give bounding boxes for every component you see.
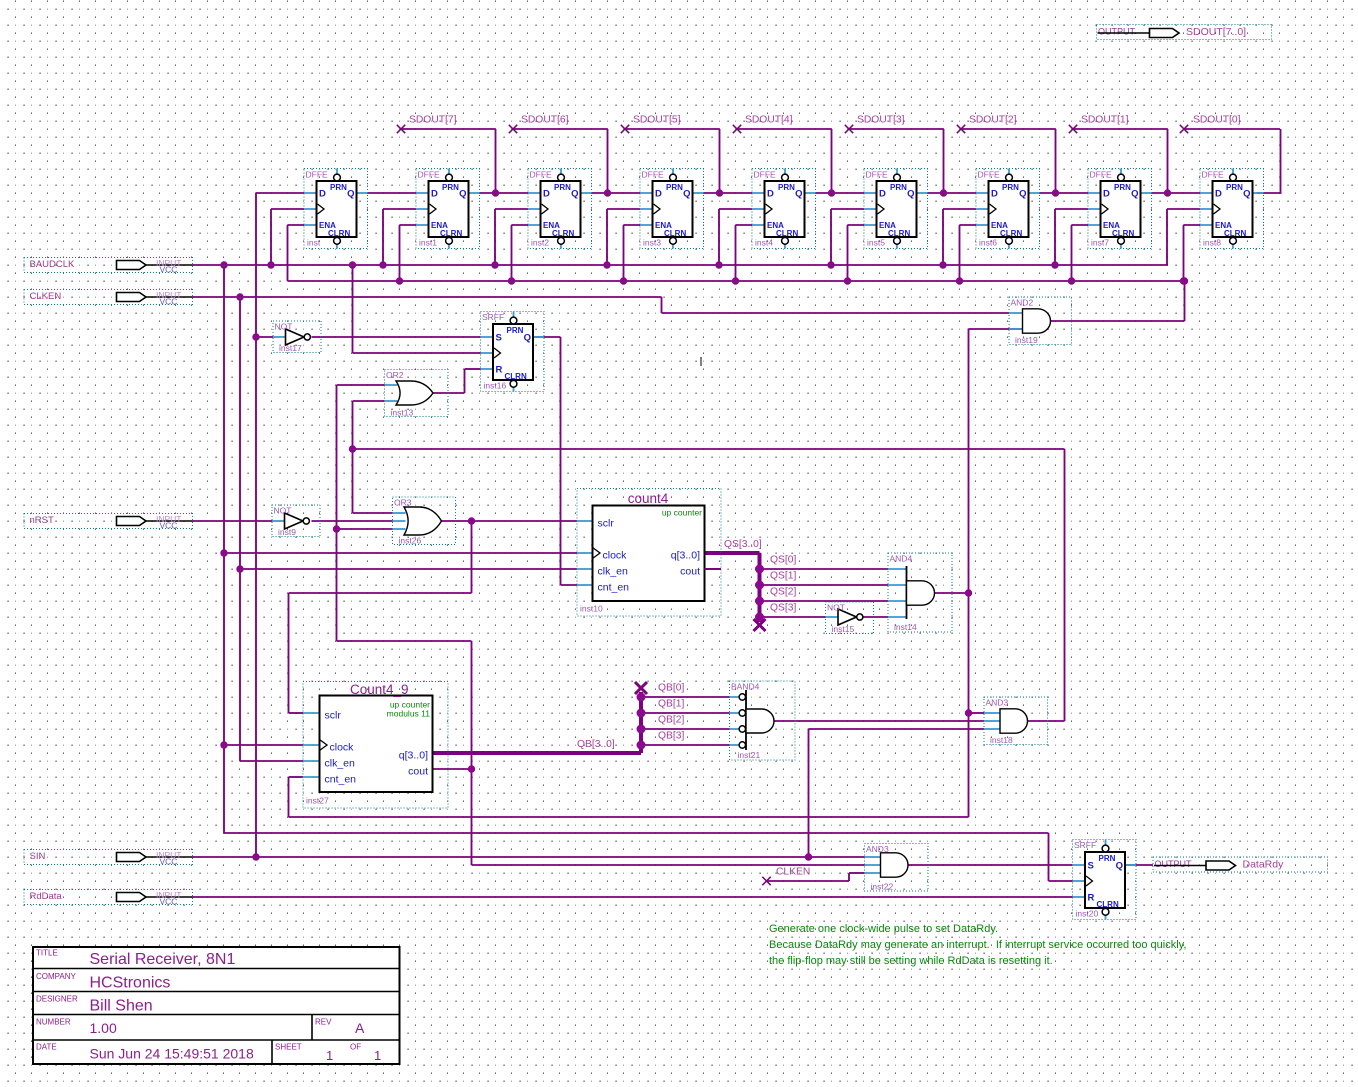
svg-text:SDOUT[3]: SDOUT[3]: [857, 115, 905, 126]
junction QB bus tap at y=744: [637, 741, 646, 750]
svg-text:Q: Q: [1131, 189, 1138, 200]
svg-text:DFFE: DFFE: [754, 170, 777, 180]
wire Q of inst6 to D of inst7: [1040, 192, 1089, 194]
svg-text:CLRN: CLRN: [776, 229, 798, 238]
wire SIN row to AND3 inst22 input 1: [193, 856, 865, 858]
inverter inst17 (NOT): [273, 321, 321, 353]
svg-text:inst18: inst18: [990, 735, 1013, 745]
svg-text:QB[0]: QB[0]: [658, 683, 684, 694]
wire OR3 inst26 output to count4 inst10 sclr: [442, 520, 578, 522]
svg-text:inst9: inst9: [278, 527, 296, 537]
svg-text:inst16: inst16: [484, 381, 507, 391]
svg-text:PRN: PRN: [1114, 183, 1131, 192]
svg-text:q[3..0]: q[3..0]: [671, 550, 700, 562]
svg-text:DATE: DATE: [36, 1043, 57, 1052]
junction QS bus tap at y=568: [755, 565, 764, 574]
net label QS[1]: [770, 571, 796, 582]
junction AND4 output / column: [965, 589, 972, 596]
input pin SIN (INPUT VCC): [24, 850, 193, 867]
svg-text:SHEET: SHEET: [275, 1043, 302, 1052]
svg-text:VCC: VCC: [160, 297, 178, 307]
svg-text:Q: Q: [683, 189, 690, 200]
junction SDOUT[6] tap: [604, 189, 611, 196]
junction bit-done / OR2 input 2: [349, 445, 356, 452]
svg-text:Sun Jun 24 15:49:51 2018: Sun Jun 24 15:49:51 2018: [90, 1046, 254, 1062]
wire shift-enable to ENA of DFFE #8: [1184, 225, 1201, 281]
junction BAUDCLK / clock DFFE #4: [715, 261, 722, 268]
wire RdData input to SRFF inst20 R input: [193, 896, 1073, 898]
wire CLKEN column down to counter clk_en inputs: [240, 297, 303, 761]
AND gate inst18 (AND3): [984, 697, 1048, 745]
wire net QS[0] to AND4 inst14: [760, 568, 889, 570]
junction AND4 net / AND3 inst18 input 1: [965, 709, 972, 716]
svg-text:D: D: [879, 189, 886, 200]
svg-text:Q: Q: [907, 189, 914, 200]
unconnected end marker CLKEN stub: [762, 877, 770, 885]
svg-text:PRN: PRN: [442, 183, 459, 192]
svg-text:Q: Q: [459, 189, 466, 200]
net label SDOUT[4]: [745, 115, 793, 126]
svg-text:DFFE: DFFE: [866, 170, 889, 180]
svg-text:Bill Shen: Bill Shen: [90, 998, 153, 1015]
svg-text:Q: Q: [1116, 861, 1123, 872]
svg-text:sclr: sclr: [325, 710, 342, 722]
wire net SDOUT[5] label stub: [624, 129, 720, 193]
input pin nRST (INPUT VCC): [24, 514, 193, 531]
wire net QB[1] to BAND4 inst21: [641, 712, 730, 714]
svg-text:QS[0]: QS[0]: [770, 555, 796, 566]
svg-text:S: S: [1088, 861, 1094, 872]
junction QS bus tap at y=616: [755, 613, 764, 622]
junction BAUDCLK / clock DFFE #7: [1051, 261, 1058, 268]
svg-text:inst27: inst27: [306, 796, 329, 806]
junction BAUDCLK / clock DFFE #6: [939, 261, 946, 268]
unconnected end marker net SDOUT[3]: [845, 125, 853, 133]
wire net QS[2] to AND4 inst14: [760, 600, 889, 602]
svg-text:inst14: inst14: [894, 622, 917, 632]
svg-text:inst13: inst13: [391, 408, 414, 418]
svg-text:PRN: PRN: [330, 183, 347, 192]
wire BAND4 inst21 output to AND3 inst18 input 2: [775, 720, 985, 722]
svg-text:NOT: NOT: [275, 322, 293, 332]
net label QB[2]: [658, 715, 684, 726]
wire shift-enable to ENA of DFFE #0: [288, 225, 305, 281]
svg-text:SRFF: SRFF: [482, 312, 504, 322]
svg-text:HCStronics: HCStronics: [90, 975, 171, 992]
unconnected end marker net SDOUT[5]: [621, 125, 629, 133]
title block: [33, 947, 400, 1064]
D flip-flop with enable inst6 (DFFE): [976, 169, 1040, 249]
wire Q of inst7 to D of inst8: [1152, 192, 1201, 194]
junction SIN row / AND3 inst18 input 3 tap: [805, 853, 812, 860]
svg-text:CLRN: CLRN: [1112, 229, 1134, 238]
svg-text:inst26: inst26: [399, 536, 422, 546]
net label QB[3]: [658, 731, 684, 742]
svg-text:clk_en: clk_en: [325, 758, 356, 770]
svg-text:CLKEN: CLKEN: [30, 291, 62, 302]
svg-text:modulus 11: modulus 11: [387, 709, 431, 719]
D flip-flop with enable inst3 (DFFE): [640, 169, 704, 249]
AND gate inst14 (AND4): [888, 553, 952, 632]
wire CLKEN to count4 inst10 clk_en: [240, 568, 577, 570]
SR flip-flop inst16 (SRFF): [481, 312, 545, 392]
wire net QS[3] to NOT inst15: [760, 616, 826, 618]
wire net QB[3] to BAND4 inst21: [641, 744, 730, 746]
wire NOT inst9 output to OR3 inst26 input 2: [312, 520, 393, 522]
svg-text:clk_en: clk_en: [598, 566, 629, 578]
junction SDOUT[2] tap: [1052, 189, 1059, 196]
wire BAUDCLK to clock of DFFE #6: [943, 209, 976, 265]
svg-text:SRFF: SRFF: [1074, 840, 1096, 850]
wire BAUDCLK to Count4_9 inst27 clock: [224, 744, 303, 746]
svg-text:Q: Q: [795, 189, 802, 200]
bus QS[3..0] from count4 inst10 q output: [705, 553, 760, 622]
wire net QB[2] to BAND4 inst21: [641, 728, 730, 730]
svg-text:DESIGNER: DESIGNER: [36, 995, 78, 1004]
svg-text:D: D: [767, 189, 774, 200]
junction CLKEN / count4 clk_en: [236, 565, 243, 572]
wire bit-done net horizontal to AND3 inst18 output: [353, 449, 1065, 721]
svg-text:CLRN: CLRN: [1000, 229, 1022, 238]
svg-text:SDOUT[1]: SDOUT[1]: [1081, 115, 1129, 126]
wire SRFF inst20 Q to DataRdy output pin: [1126, 864, 1153, 866]
wire OR3 output to Count4_9 inst27 sclr: [289, 521, 472, 713]
svg-text:D: D: [1215, 189, 1222, 200]
wire BAUDCLK to clock of DFFE #4: [719, 209, 752, 265]
bus label QS[3..0]: [724, 539, 762, 550]
svg-text:D: D: [991, 189, 998, 200]
svg-text:Serial Receiver, 8N1: Serial Receiver, 8N1: [90, 951, 236, 968]
svg-text:D: D: [319, 189, 326, 200]
net label SDOUT[2]: [969, 115, 1017, 126]
junction shift-enable / ENA DFFE #2: [508, 277, 515, 284]
svg-text:cnt_en: cnt_en: [598, 582, 630, 594]
junction BAUDCLK / left column: [220, 261, 227, 268]
wire CLKEN row to AND2 inst19 input: [193, 297, 1010, 313]
svg-text:OF: OF: [350, 1043, 361, 1052]
wire SIN tap to NOT inst17 input: [256, 336, 273, 338]
wire BAUDCLK to clock of DFFE #5: [831, 209, 864, 265]
junction QB bus tap at y=712: [637, 709, 646, 718]
comment text: [769, 923, 1186, 967]
svg-text:BAUDCLK: BAUDCLK: [30, 259, 76, 270]
net label QB[1]: [658, 699, 684, 710]
unconnected end marker net SDOUT[0]: [1180, 125, 1188, 133]
D flip-flop with enable inst7 (DFFE): [1088, 169, 1152, 249]
wire NOT inst15 output to AND4 inst14 input 4: [863, 616, 889, 618]
junction BAUDCLK / SRFF inst16 clock tap: [349, 261, 356, 268]
junction OR3 output / sclr nets: [468, 517, 475, 524]
svg-text:1: 1: [374, 1048, 381, 1063]
svg-text:OR3: OR3: [394, 498, 412, 508]
SR flip-flop inst20 (SRFF): [1073, 840, 1137, 920]
wire OR2 inst13 output to SRFF inst16 R input: [433, 369, 481, 393]
svg-text:Count4_9: Count4_9: [350, 682, 409, 697]
svg-text:sclr: sclr: [598, 518, 615, 530]
svg-text:CLRN: CLRN: [888, 229, 910, 238]
wire net QS[1] to AND4 inst14: [760, 584, 889, 586]
D flip-flop with enable inst2 (DFFE): [528, 169, 592, 249]
input pin CLKEN (INPUT VCC): [24, 290, 193, 307]
junction SDOUT[1] tap: [1164, 189, 1171, 196]
junction SIN column / SIN row: [252, 853, 259, 860]
counter inst27 (Count4_9 up counter modulus 11): [303, 682, 448, 809]
wire frame-done net column (cout of Count4_9): [337, 385, 865, 865]
wire frame-done tap to OR3 inst26 input 3: [337, 528, 393, 530]
svg-text:VCC: VCC: [160, 897, 178, 907]
net label SDOUT[0]: [1193, 115, 1241, 126]
svg-text:R: R: [1088, 893, 1095, 904]
wire net SDOUT[1] label stub: [1072, 129, 1168, 193]
svg-text:inst5: inst5: [867, 238, 885, 248]
wire Q of inst3 to D of inst4: [704, 192, 753, 194]
svg-text:DataRdy: DataRdy: [1243, 859, 1285, 871]
svg-text:VCC: VCC: [160, 521, 178, 531]
svg-text:VCC: VCC: [160, 265, 178, 275]
svg-text:SDOUT[4]: SDOUT[4]: [745, 115, 793, 126]
wire BAUDCLK to clock of DFFE #7: [1055, 209, 1088, 265]
input pin RdData (INPUT VCC): [24, 890, 193, 907]
wire BAUDCLK to clock of DFFE #0: [271, 209, 304, 265]
svg-text:PRN: PRN: [1002, 183, 1019, 192]
svg-text:D: D: [655, 189, 662, 200]
wire frame-done net to OR2 inst13 input 1: [337, 384, 385, 386]
svg-text:SDOUT[2]: SDOUT[2]: [969, 115, 1017, 126]
wire BAUDCLK to clock of DFFE #1: [383, 209, 416, 265]
svg-text:QB[3..0]: QB[3..0]: [577, 739, 615, 750]
wire shift-enable to ENA of DFFE #4: [736, 225, 753, 281]
junction SDOUT[5] tap: [716, 189, 723, 196]
wire BAUDCLK tap to SRFF inst16 clock: [353, 265, 481, 353]
wire net SDOUT[4] label stub: [736, 129, 832, 193]
junction shift-enable / ENA DFFE #4: [732, 277, 739, 284]
wire shift-enable to ENA of DFFE #3: [624, 225, 641, 281]
svg-text:cout: cout: [680, 566, 700, 578]
inverter inst9 (NOT): [272, 505, 320, 537]
junction shift-enable / ENA DFFE #5: [844, 277, 851, 284]
svg-text:the flip-flop may still be set: the flip-flop may still be setting while…: [769, 955, 1053, 967]
output pin SDOUT[7..0] (OUTPUT): [1097, 25, 1272, 40]
junction BAUDCLK / clock DFFE #1: [379, 261, 386, 268]
counter inst10 (count4 up counter): [577, 489, 721, 617]
wire Q of inst to D of inst1: [368, 192, 417, 194]
unconnected end marker net SDOUT[7]: [397, 125, 405, 133]
svg-text:AND4: AND4: [890, 554, 913, 564]
wire AND2 inst19 output to shift-enable row: [1051, 281, 1185, 321]
D flip-flop with enable inst (DFFE): [304, 169, 368, 249]
wire net SDOUT[2] label stub: [960, 129, 1056, 193]
net label QS[3]: [770, 603, 796, 614]
net label CLKEN: [776, 867, 810, 878]
junction shift-enable / ENA DFFE #8: [1180, 277, 1187, 284]
wire BAUDCLK to clock of DFFE #3: [607, 209, 640, 265]
wire BAUDCLK row: [193, 264, 1169, 266]
junction BAUDCLK / clock DFFE #2: [491, 261, 498, 268]
svg-text:QB[1]: QB[1]: [658, 699, 684, 710]
junction QS bus tap at y=600: [755, 597, 764, 606]
svg-text:Q: Q: [1243, 189, 1250, 200]
junction BAUDCLK / clock DFFE #5: [827, 261, 834, 268]
junction SDOUT[4] tap: [828, 189, 835, 196]
wire Q of inst5 to D of inst6: [928, 192, 977, 194]
junction Count4_9 cout / frame-done column: [468, 765, 475, 772]
svg-text:TITLE: TITLE: [36, 949, 58, 958]
unconnected end marker net SDOUT[1]: [1069, 125, 1077, 133]
svg-text:REV: REV: [315, 1018, 332, 1027]
svg-text:q[3..0]: q[3..0]: [399, 750, 428, 762]
net label SDOUT[5]: [633, 115, 681, 126]
svg-text:NOT: NOT: [827, 603, 845, 613]
svg-text:PRN: PRN: [1226, 183, 1243, 192]
wire NOT inst17 output to SRFF inst16 S input: [312, 336, 481, 338]
wire AND4 inst14 output (bit-done net) column: [289, 329, 1023, 817]
svg-text:PRN: PRN: [778, 183, 795, 192]
svg-text:inst19: inst19: [1015, 335, 1038, 345]
svg-text:SDOUT[0]: SDOUT[0]: [1193, 115, 1241, 126]
output pin DataRdy (OUTPUT): [1153, 857, 1328, 872]
unconnected end marker net SDOUT[4]: [733, 125, 741, 133]
unconnected end marker net SDOUT[6]: [509, 125, 517, 133]
svg-text:Q: Q: [1019, 189, 1026, 200]
junction SDOUT[7] tap: [492, 189, 499, 196]
junction BAUDCLK / clock DFFE #0: [267, 261, 274, 268]
svg-text:DFFE: DFFE: [978, 170, 1001, 180]
svg-text:1.00: 1.00: [90, 1020, 117, 1036]
AND gate with inverted inputs inst21 (BAND4): [730, 681, 796, 760]
svg-text:inst7: inst7: [1091, 238, 1109, 248]
bus QB[3..0] from Count4_9 inst27 q output: [433, 692, 642, 753]
wire shift-enable to ENA of DFFE #6: [960, 225, 977, 281]
wire nRST input to NOT inst9: [193, 520, 274, 522]
svg-text:inst17: inst17: [279, 343, 302, 353]
svg-text:inst2: inst2: [531, 238, 549, 248]
svg-text:cnt_en: cnt_en: [325, 774, 357, 786]
wire Count4_9 inst27 cout to frame-done column: [433, 768, 472, 770]
junction QB bus tap at y=696: [637, 693, 646, 702]
svg-text:NUMBER: NUMBER: [36, 1018, 71, 1027]
svg-text:inst8: inst8: [1203, 238, 1221, 248]
junction SIN / NOT inst17 input: [252, 333, 259, 340]
AND gate inst19 (AND2): [1009, 297, 1072, 345]
svg-text:CLRN: CLRN: [552, 229, 574, 238]
svg-text:A: A: [355, 1020, 365, 1036]
wire AND3 inst22 output to SRFF inst20 S input: [908, 864, 1073, 866]
svg-text:CLRN: CLRN: [664, 229, 686, 238]
wire SIN to D of inst: [256, 193, 304, 337]
svg-text:PRN: PRN: [554, 183, 571, 192]
svg-text:NOT: NOT: [274, 506, 292, 516]
net label QS[0]: [770, 555, 796, 566]
OR gate inst13 (OR2): [385, 370, 449, 418]
OR gate inst26 (OR3): [393, 497, 456, 546]
svg-text:count4: count4: [628, 491, 669, 506]
svg-text:SDOUT[7..0]: SDOUT[7..0]: [1186, 26, 1246, 38]
bus label QB[3..0]: [577, 739, 615, 750]
svg-text:1: 1: [326, 1048, 333, 1063]
D flip-flop with enable inst5 (DFFE): [864, 169, 928, 249]
svg-text:inst20: inst20: [1076, 909, 1099, 919]
wire BAUDCLK to count4 inst10 clock: [224, 552, 577, 554]
svg-text:OUTPUT: OUTPUT: [1155, 859, 1193, 869]
svg-text:QS[3]: QS[3]: [770, 603, 796, 614]
svg-text:inst1: inst1: [419, 238, 437, 248]
svg-text:CLKEN: CLKEN: [776, 867, 810, 878]
wire Q of inst4 to D of inst5: [816, 192, 865, 194]
wire CLKEN named stub to AND3 inst22 input 3: [766, 873, 865, 881]
svg-text:CLRN: CLRN: [1224, 229, 1246, 238]
wire shift-enable to ENA of DFFE #5: [848, 225, 865, 281]
svg-text:inst4: inst4: [755, 238, 773, 248]
unconnected bus end marker QS[3..0]: [754, 619, 766, 631]
svg-text:Generate one clock-wide pulse: Generate one clock-wide pulse to set Dat…: [769, 923, 998, 935]
input pin BAUDCLK (INPUT VCC): [24, 258, 193, 275]
svg-text:PRN: PRN: [1099, 854, 1116, 863]
svg-text:DFFE: DFFE: [1090, 170, 1113, 180]
wire BAUDCLK to clock of DFFE #2: [495, 209, 528, 265]
svg-text:CLRN: CLRN: [505, 372, 527, 381]
svg-text:AND3: AND3: [986, 698, 1009, 708]
svg-text:RdData: RdData: [30, 891, 63, 902]
unconnected bus end marker QB[3..0]: [635, 682, 647, 694]
svg-text:QB[3]: QB[3]: [658, 731, 684, 742]
junction BAUDCLK / Count4_9 clock: [220, 741, 227, 748]
junction AND2 inst19 output / shift-enable row: [1181, 277, 1188, 284]
svg-text:Q: Q: [571, 189, 578, 200]
wire SRFF inst16 Q to count4 inst10 cnt_en: [533, 337, 578, 585]
svg-text:SDOUT[7]: SDOUT[7]: [409, 115, 457, 126]
svg-text:AND3: AND3: [866, 844, 889, 854]
wire net SDOUT[0] from inst8 Q: [1183, 129, 1282, 193]
wire net SDOUT[3] label stub: [848, 129, 944, 193]
wire SIN column to SIN row: [255, 337, 257, 857]
unconnected end marker net SDOUT[2]: [957, 125, 965, 133]
net label SDOUT[1]: [1081, 115, 1129, 126]
junction CLKEN row / column: [236, 293, 243, 300]
svg-text:VCC: VCC: [160, 857, 178, 867]
wire BAUDCLK to clock of DFFE #8: [1167, 209, 1200, 265]
wire shift-enable to ENA of DFFE #7: [1072, 225, 1089, 281]
wire net SDOUT[6] label stub: [512, 129, 608, 193]
wire AND4 net to AND3 inst18 input 1: [969, 712, 985, 714]
svg-text:DFFE: DFFE: [530, 170, 553, 180]
svg-text:cout: cout: [408, 766, 428, 778]
svg-text:inst3: inst3: [643, 238, 661, 248]
svg-text:AND2: AND2: [1011, 298, 1034, 308]
wire net QB[0] to BAND4 inst21: [641, 696, 730, 698]
svg-text:S: S: [496, 333, 502, 344]
svg-text:SDOUT[5]: SDOUT[5]: [633, 115, 681, 126]
wire SIN tap to AND3 inst18 input 3: [809, 729, 985, 857]
net label SDOUT[7]: [409, 115, 457, 126]
svg-text:Q: Q: [347, 189, 354, 200]
wire bit-done net to OR2 inst13 input 2 and OR3 inst26 input 1: [353, 401, 393, 513]
svg-text:QB[2]: QB[2]: [658, 715, 684, 726]
svg-text:OR2: OR2: [386, 370, 404, 380]
junction BAUDCLK / count4 clock: [220, 549, 227, 556]
junction SDOUT[3] tap: [940, 189, 947, 196]
svg-text:CLRN: CLRN: [1097, 900, 1119, 909]
net label QB[0]: [658, 683, 684, 694]
svg-text:DFFE: DFFE: [306, 170, 329, 180]
svg-text:clock: clock: [330, 742, 355, 754]
svg-text:inst21: inst21: [738, 750, 761, 760]
svg-text:QS[2]: QS[2]: [770, 587, 796, 598]
svg-text:DFFE: DFFE: [418, 170, 441, 180]
stray tick mark: [700, 357, 702, 366]
svg-text:inst22: inst22: [871, 882, 894, 892]
net label QS[2]: [770, 587, 796, 598]
AND gate inst22 (AND3): [865, 844, 929, 892]
